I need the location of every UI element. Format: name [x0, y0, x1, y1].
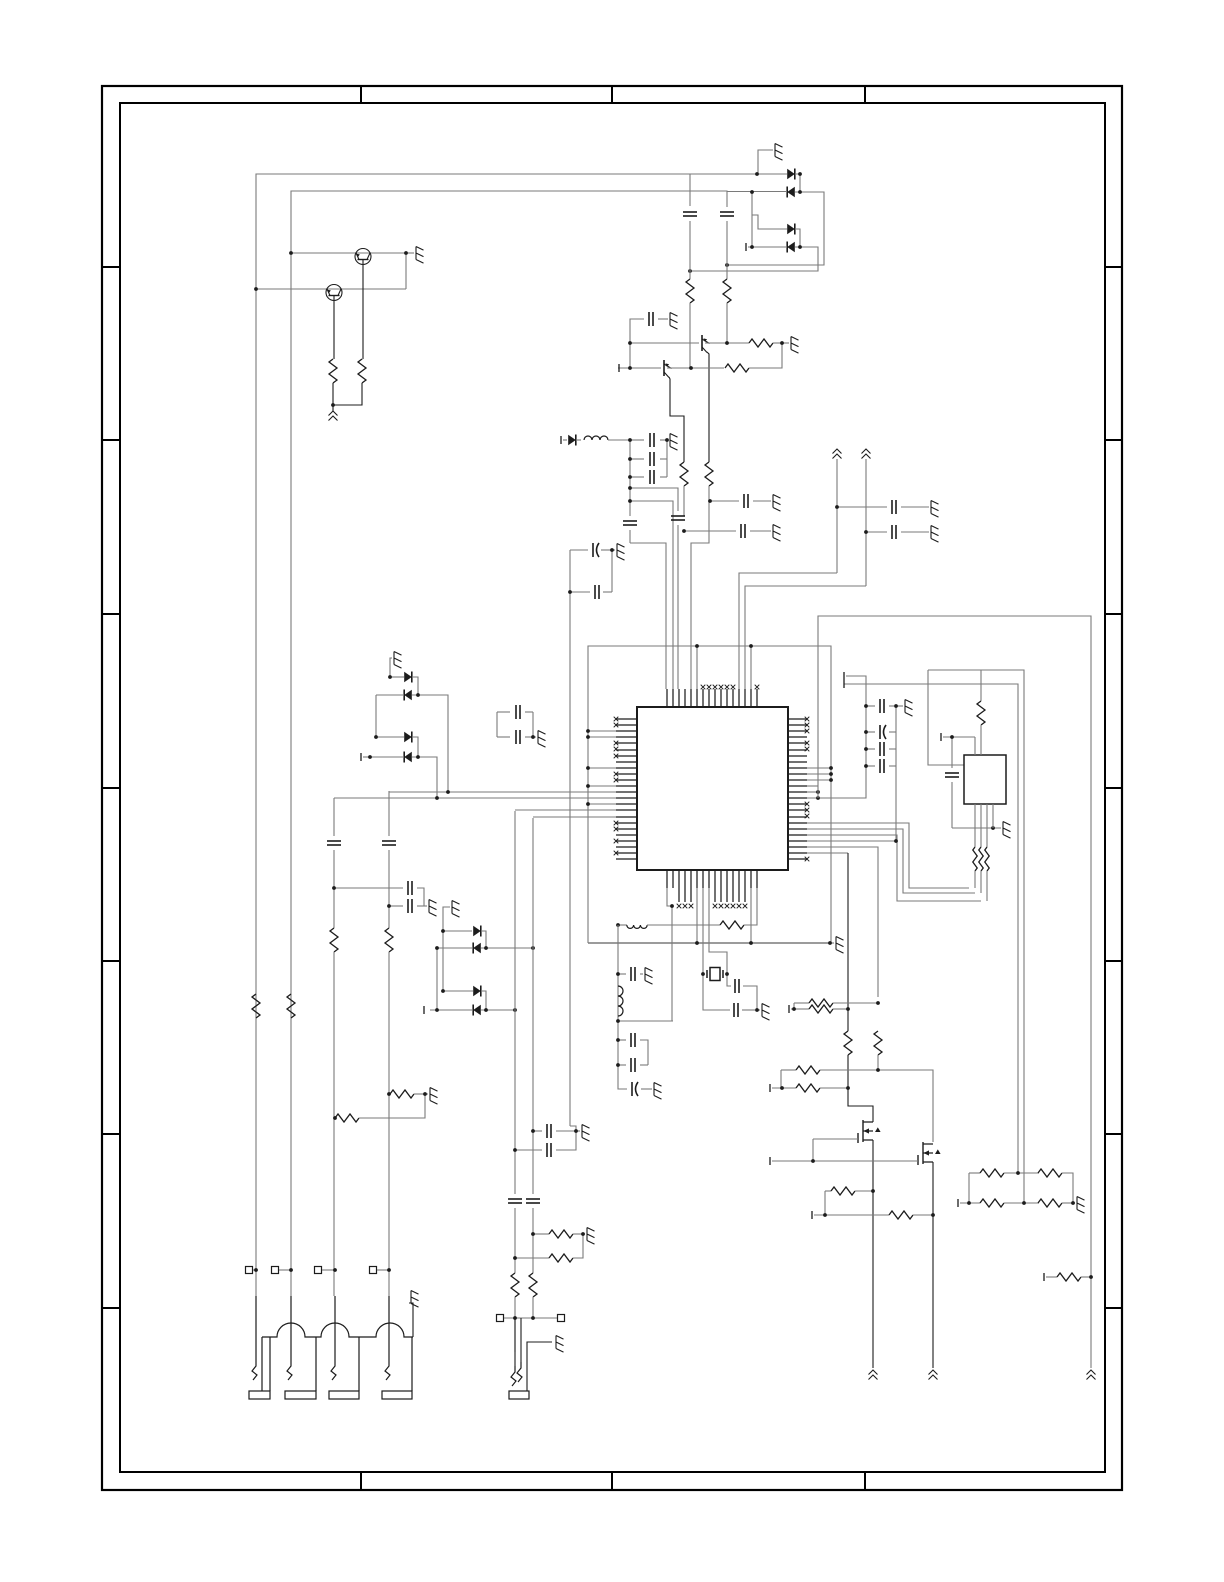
- IC U1 left pins: [616, 719, 637, 859]
- resistor R27 series colA: [330, 928, 338, 952]
- resistor R31 series: [511, 1273, 519, 1297]
- resistor R18: [796, 1066, 820, 1074]
- resistor R19: [796, 1084, 820, 1092]
- wire cluster2 left col: [436, 948, 438, 1010]
- off-page arrow net A: [833, 449, 842, 459]
- junctions x618: [616, 972, 620, 1067]
- wire cluster1 left col: [375, 695, 377, 737]
- capacitor C15 U2: [945, 773, 959, 777]
- wire cluster1 net to pin792 row: [418, 695, 448, 792]
- capacitor C12: [570, 591, 590, 593]
- transistor Q1: [355, 249, 371, 265]
- resistor pair R15 R16: [788, 1005, 790, 1013]
- resistor R10 U2 pin1: [974, 804, 976, 847]
- resistor R14 rail: [844, 1031, 852, 1055]
- diode D15: [473, 943, 481, 954]
- wire right pin rows to box1: [807, 767, 831, 769]
- junctions diode cluster: [688, 172, 802, 273]
- capacitor C3 with ground: [630, 319, 644, 343]
- wire pin673 feed: [630, 501, 673, 689]
- junctions pin squares: [254, 1268, 391, 1272]
- IC U1 right pins: [788, 719, 807, 859]
- capacitor C33 series: [526, 1199, 540, 1203]
- resistor R2 Q1 emitter: [358, 359, 366, 383]
- capacitor C7 series: [623, 521, 637, 525]
- wire D1-D2 cathode link: [795, 174, 800, 192]
- wire cluster2 gnd col: [442, 931, 444, 991]
- wire pin751 down: [750, 888, 752, 943]
- wire U2 pin down: [992, 804, 994, 828]
- resistor R5: [749, 339, 773, 347]
- wire box2 top net: [818, 616, 1091, 1368]
- ground row1234: [583, 1233, 585, 1235]
- wire Q2 emitter: [333, 301, 335, 359]
- wire C20 to ground rail: [743, 986, 757, 1010]
- diode D13: [404, 752, 412, 763]
- junctions cap bank: [628, 438, 669, 503]
- wire column x533: [532, 818, 534, 1194]
- junctions bridge: [967, 1171, 1075, 1205]
- IC U1 bottom pins: [667, 870, 757, 888]
- capacitor C9: [744, 494, 748, 508]
- wire M2 gate lead: [772, 1160, 918, 1162]
- diode D17: [473, 1005, 481, 1016]
- wire Q1 emitter: [362, 265, 364, 359]
- wire pin667 feed: [630, 543, 666, 689]
- wire Q3 emitter column: [707, 352, 709, 462]
- wire pin792 long row: [389, 791, 616, 793]
- capacitor C34 row: [533, 1130, 542, 1132]
- wire ground bus y943: [588, 942, 830, 944]
- wire box1 enclosing net: [588, 646, 831, 943]
- junctions box1 right edge: [829, 766, 833, 782]
- resistor R36: [334, 1117, 336, 1119]
- wire cluster2 to col533: [486, 947, 533, 949]
- wire R5 to ground: [773, 342, 789, 344]
- off-page arrow net B: [862, 449, 871, 459]
- diode D3: [787, 224, 795, 235]
- no-connect marks U1 top: [701, 685, 760, 690]
- resistor R24: [957, 1199, 959, 1207]
- sheet border frame: [102, 86, 1122, 1490]
- wire U2 bypass column: [951, 737, 953, 768]
- capacitor C14 netB: [866, 531, 887, 533]
- resistor R12 U2 pin3: [986, 804, 988, 847]
- capacitor C25 polarized: [618, 1082, 627, 1089]
- connector pin P4: [370, 1267, 377, 1274]
- wire U2 stub row: [940, 733, 942, 741]
- diode D1: [787, 169, 795, 180]
- capacitor C22: [618, 973, 626, 975]
- ground cap loop: [612, 549, 615, 551]
- wire gate row upper: [781, 1069, 796, 1071]
- resistor R4 feed column B: [723, 279, 731, 303]
- resistor R32 series: [529, 1273, 537, 1297]
- transistor Q5 mosfet M1: [858, 1120, 881, 1143]
- junctions crystal: [701, 972, 759, 1012]
- transistor Q3: [702, 335, 710, 353]
- capacitor C19: [866, 765, 875, 767]
- connector J2 contacts: [514, 1318, 516, 1366]
- connector pin P5: [497, 1315, 504, 1322]
- resistor R23: [1038, 1169, 1062, 1177]
- connector pin P6: [558, 1315, 565, 1322]
- wire pin792 row: [807, 791, 818, 793]
- IC U1 body: [637, 707, 788, 870]
- resistor R29 series col x256: [252, 994, 260, 1018]
- wire D3-D4 link: [795, 229, 800, 247]
- off-page arrow M1: [869, 1370, 878, 1380]
- ground R35: [425, 1093, 428, 1095]
- wire cap bank stub: [843, 672, 845, 680]
- ground connector J2: [527, 1342, 552, 1391]
- wire cap loop link: [611, 550, 613, 592]
- wire netA to pin739: [739, 573, 837, 689]
- wire M1 drain jog: [848, 1088, 873, 1122]
- wire column x515: [514, 811, 516, 1194]
- wire long net down-left: [569, 592, 571, 1126]
- transistor Q4: [664, 360, 672, 378]
- connector J1 crimp bends: [252, 1360, 257, 1380]
- off-page arrow supply: [329, 411, 338, 421]
- wire cap bank right rail: [895, 706, 897, 841]
- wire diode box net D4: [690, 247, 818, 271]
- resistor R6: [725, 364, 749, 372]
- wire emitter join: [332, 383, 334, 411]
- junctions under IC: [616, 904, 674, 927]
- junctions feed rows: [682, 499, 712, 533]
- diode D2: [787, 187, 795, 198]
- inductor L2: [618, 924, 627, 926]
- junctions bus: [695, 941, 832, 945]
- wire M2 source: [932, 1162, 934, 1368]
- wire pin829 nested route: [807, 829, 975, 893]
- wire D4 anode row: [748, 246, 787, 248]
- capacitor C28 row: [334, 887, 403, 889]
- junctions res rows: [333, 1092, 427, 1120]
- IC U1 top pins: [667, 689, 757, 707]
- wire cap loop left: [570, 549, 588, 551]
- junctions box1 top: [695, 644, 753, 648]
- inductor L1: [577, 439, 581, 441]
- capacitor C18: [866, 748, 875, 750]
- wire cap pair sides: [496, 712, 498, 737]
- capacitor C17 polarized: [866, 731, 875, 733]
- resistor R22: [969, 1172, 980, 1174]
- junctions cap loop: [568, 548, 614, 594]
- junctions cluster2: [435, 929, 535, 1012]
- capacitor C30: [497, 711, 510, 713]
- diode D10: [390, 676, 404, 678]
- junctions box2 edge: [816, 790, 820, 800]
- wire pin798 row to cap bank: [807, 766, 866, 798]
- junctions Q3 Q4 area: [628, 341, 784, 370]
- junctions columns: [513, 1129, 585, 1260]
- ground row1131: [576, 1130, 580, 1132]
- capacitor C27 series colB: [382, 841, 396, 845]
- wire pin667 down jog: [667, 888, 672, 1021]
- diode D14: [443, 930, 472, 932]
- diode D9: [568, 435, 576, 446]
- wire pin786 row: [807, 785, 818, 787]
- resistor R13: [720, 921, 744, 929]
- wire netB to pin745: [745, 586, 866, 689]
- junctions power section: [780, 1001, 935, 1217]
- wire net from cap loop: [570, 1126, 576, 1131]
- wire to pin column: [618, 1020, 673, 1022]
- capacitor C1 feed column A: [683, 212, 697, 216]
- capacitor C23: [618, 1039, 626, 1041]
- wire to M2 drain: [878, 1070, 933, 1142]
- wire D12-D13 link: [412, 737, 418, 757]
- inductor L3: [618, 986, 623, 1016]
- IC U2 body: [964, 755, 1006, 804]
- capacitor C11 polarized: [593, 543, 599, 557]
- capacitor C6: [630, 476, 644, 478]
- off-page arrow M2: [929, 1370, 938, 1380]
- capacitor C16: [866, 705, 875, 707]
- wire D16-D17 link: [481, 991, 486, 1010]
- wire U2 loop outer: [928, 670, 1024, 1203]
- no-connect marks U1 left: [614, 717, 619, 856]
- junctions box1 left edge: [586, 729, 590, 806]
- wire U2 loop left: [928, 670, 964, 765]
- wire gate net row stub: [769, 1157, 771, 1165]
- resistor R26: [1043, 1273, 1045, 1281]
- junctions cap rows left: [332, 886, 391, 908]
- wire pin847 to divider: [807, 847, 878, 997]
- wire pin679 feed upper: [630, 488, 678, 511]
- wire pin703 to crystal: [702, 888, 704, 974]
- transistor Q6 mosfet M2: [918, 1142, 941, 1165]
- wire crystal left down: [703, 974, 730, 1010]
- ground bus right: [830, 942, 834, 944]
- ground near Q1: [406, 252, 414, 254]
- resistor R20: [824, 1191, 826, 1215]
- resistor R34 row: [515, 1257, 549, 1259]
- capacitor C8 series: [671, 516, 685, 520]
- wire Q4 emitter jog: [669, 377, 684, 462]
- wire Q1 base row: [291, 252, 406, 254]
- ground crystal: [757, 1009, 760, 1011]
- wire D2 anode row: [727, 191, 787, 193]
- resistor R25: [1038, 1199, 1062, 1207]
- wire left diode column: [751, 192, 753, 247]
- resistor R8 emitter B: [680, 462, 688, 486]
- junction cap pair: [531, 735, 535, 739]
- wire pin853 to power rail: [807, 852, 848, 854]
- wire pin817 long row: [533, 816, 616, 818]
- capacitor C2 feed column B: [720, 212, 734, 216]
- wire pin798 long row: [334, 797, 616, 799]
- ground U2: [991, 826, 995, 830]
- capacitor C10: [741, 524, 745, 538]
- wire D10-D11 link: [412, 677, 418, 695]
- wire R13 right to pin757: [744, 888, 757, 925]
- wire pin685 cap row: [684, 530, 736, 532]
- wire Q3 collector row: [705, 342, 749, 344]
- crystal Y1: [707, 968, 723, 981]
- wire M1 source: [872, 1140, 874, 1368]
- ground cluster1: [390, 658, 392, 677]
- wire Q2 base row: [256, 288, 406, 290]
- wire pin697 down: [696, 888, 698, 943]
- junctions mid connector: [513, 1316, 535, 1320]
- ground cap bank: [670, 434, 678, 451]
- connector J1 contacts: [256, 1296, 389, 1360]
- capacitor C5: [630, 458, 644, 460]
- capacitor C21: [734, 1003, 738, 1017]
- connector pin P2: [272, 1267, 279, 1274]
- wire cluster2 to col515: [486, 1009, 515, 1011]
- capacitor C4: [630, 439, 644, 441]
- wire cluster1 net to pin798 row: [418, 757, 437, 798]
- wire net W1 top rail: [256, 174, 690, 1296]
- wire bridge left rail: [968, 1173, 970, 1203]
- wire pin751 up: [750, 646, 752, 689]
- resistor R7 emitter A: [705, 462, 713, 486]
- connector J1 housing: [262, 1323, 413, 1391]
- capacitor C32 series: [508, 1199, 522, 1203]
- wire R7 node row: [710, 500, 739, 502]
- wire Q3 base row: [630, 342, 699, 344]
- wire x618 column: [617, 925, 619, 1082]
- capacitor C35 row: [515, 1149, 542, 1151]
- wire crystal right down: [727, 974, 731, 986]
- wire column A termination: [690, 367, 692, 369]
- junctions top-left: [254, 251, 408, 407]
- resistor R33 row: [533, 1233, 549, 1235]
- resistor R11 U2 pin2: [980, 804, 982, 847]
- connector pin P3: [315, 1267, 322, 1274]
- capacitor C29 row: [389, 905, 403, 907]
- connector J1 pads: [249, 1391, 412, 1399]
- no-connect marks U1 bottom: [677, 888, 748, 908]
- resistor R9 U2 top: [980, 670, 982, 701]
- resistor R17 divider: [874, 1031, 882, 1055]
- transistor Q2: [326, 285, 342, 301]
- wire Q4 base row: [618, 367, 661, 369]
- wire pin810 long row: [515, 809, 616, 811]
- junctions arrow nets: [835, 505, 868, 534]
- ground cap rows: [424, 905, 427, 907]
- input stub row: [560, 436, 562, 444]
- resistor R1 Q2 emitter: [329, 359, 337, 383]
- ground cap bank right: [896, 705, 903, 707]
- off-page arrow box2: [1087, 1370, 1096, 1380]
- resistor R3 feed column A: [686, 279, 694, 303]
- wire pin697 up: [696, 646, 698, 689]
- wire Q4 collector row: [667, 367, 724, 369]
- wire diode box net D2: [727, 192, 824, 265]
- diode D11: [404, 690, 412, 701]
- junction R26: [1089, 1275, 1093, 1279]
- capacitor C31: [497, 736, 510, 738]
- wire gate row lower: [769, 1084, 771, 1092]
- ground connector J1: [409, 1303, 413, 1337]
- diode D12: [376, 736, 404, 738]
- resistor R21: [811, 1211, 813, 1219]
- wire pin841 to cap rail: [807, 840, 896, 842]
- wire net W2 second rail: [291, 191, 727, 1296]
- wire collector link: [405, 253, 407, 289]
- wire R6 up link: [749, 343, 782, 368]
- wire pin709 to crystal jog: [709, 888, 727, 974]
- junctions cap bank mid: [864, 704, 898, 843]
- ground top diode cluster: [758, 150, 773, 174]
- resistor R28 series colB: [385, 928, 393, 952]
- wire D14-D15 link: [481, 931, 486, 948]
- wire cap bank right link: [666, 440, 668, 477]
- wire W1 extension to D1: [690, 173, 787, 175]
- wire left pin rows to box1: [588, 730, 616, 732]
- no-connect marks U1 right: [805, 717, 810, 862]
- wire pin835 nested route: [807, 835, 981, 901]
- capacitor C24: [618, 1064, 626, 1066]
- diode D4: [787, 242, 795, 253]
- ground cluster2: [443, 907, 450, 931]
- junctions cluster1: [368, 675, 450, 800]
- resistor R30 series col x291: [287, 994, 295, 1018]
- ground bridge: [1073, 1202, 1075, 1204]
- connector pin P1: [246, 1267, 253, 1274]
- ground cap pair: [533, 736, 536, 738]
- capacitor C26 series colA: [327, 841, 341, 845]
- wire pin823 nested route: [807, 823, 969, 888]
- resistor R35: [389, 1093, 390, 1095]
- connector J2 pad: [509, 1391, 529, 1399]
- wire black rail x848: [847, 853, 849, 1031]
- diode D16: [443, 990, 473, 992]
- wire U2 loop inner: [844, 684, 1018, 1173]
- capacitor C13 netA: [837, 506, 887, 508]
- wire M1 gate: [813, 1138, 858, 1140]
- wire U2 ground row: [952, 827, 1001, 829]
- wire D3 anode elbow: [752, 215, 787, 229]
- wire cap bank column: [629, 440, 631, 516]
- capacitor C20: [735, 979, 739, 993]
